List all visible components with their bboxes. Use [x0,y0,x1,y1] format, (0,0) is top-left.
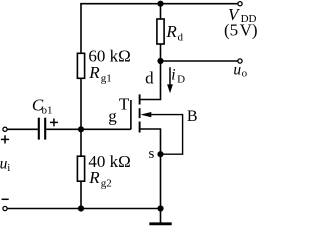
wire ground stub [160,209,162,223]
node source junction [157,151,163,157]
wire source: channel to source node [140,129,161,154]
transistor T channel bar drain side [139,94,141,104]
wire gate node to transistor gate [81,128,131,130]
wire bulk: arrow tail to B corner down to source node [148,115,183,155]
svg-text:g: g [108,106,117,125]
svg-text:b1: b1 [42,105,53,117]
wire drain: channel to drain node [140,61,161,100]
wire output: drain node to uo terminal [161,60,239,62]
wire source node down to ground node [160,154,162,208]
svg-text:R: R [165,22,177,41]
wire top supply rail [80,3,238,5]
label Rd [165,22,183,44]
wire capacitor to gate node [46,128,81,130]
current arrow iD head [167,84,173,93]
label iD [171,67,185,86]
svg-text:g1: g1 [101,73,112,85]
wire gate node to Rg2 [80,129,82,156]
transistor T channel bar source side [139,122,141,133]
current arrow iD shaft [169,67,171,85]
label ui [0,156,10,174]
resistor Rd body [157,19,164,44]
svg-text:g2: g2 [101,178,112,190]
resistor Rg1 body [77,53,84,78]
label Rg2 [88,168,112,190]
ground bar [149,222,171,225]
svg-text:u: u [233,61,241,78]
node gate junction [78,126,84,132]
terminal input plus [3,127,7,131]
svg-text:d: d [178,32,184,44]
svg-text:d: d [145,69,154,88]
svg-text:R: R [88,63,100,82]
terminal input minus [3,206,7,210]
svg-text:i: i [171,67,175,84]
svg-text:D: D [177,74,185,86]
svg-text:s: s [149,146,155,162]
resistor Rg2 body [77,156,84,181]
wire left rail upper (top corner to Rg1) [80,4,82,54]
minus sign at lower input terminal [2,198,9,200]
plus sign at capacitor [50,119,58,127]
wire drain node up to Rd [160,44,162,61]
bulk arrow head (points at channel) [140,112,151,117]
svg-text:T: T [119,95,130,114]
label VDD [228,5,257,25]
terminal output uo [238,59,242,63]
wire Rg1 to gate node [80,78,82,129]
capacitor Cb1 left plate [38,118,40,140]
label Rg1 [88,63,112,85]
label uo [233,61,247,79]
svg-text:B: B [187,108,198,125]
terminal VDD [238,2,242,6]
svg-text:(5 V): (5 V) [224,21,257,40]
wire Rg2 to bottom rail [80,181,82,208]
wire Rd to top rail [160,4,162,19]
svg-text:i: i [7,162,10,174]
capacitor Cb1 right plate [44,118,46,140]
wire bottom rail [8,208,161,210]
svg-text:R: R [88,168,100,187]
node top rail to Rd junction [157,1,163,7]
transistor T channel bar bulk (middle) [139,108,141,118]
node drain / output junction [157,58,163,64]
svg-text:o: o [242,68,248,80]
transistor T gate bar [130,100,132,129]
wire input terminal to capacitor [8,128,38,130]
label Cb1 [32,96,53,117]
node bottom rail ground junction [157,205,163,211]
node Rg2 bottom junction [78,205,84,211]
plus sign at input terminal [1,135,9,143]
